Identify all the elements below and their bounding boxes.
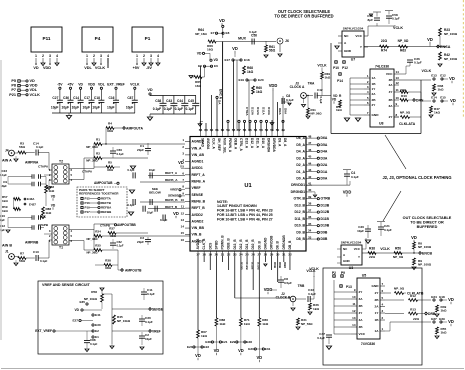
svg-text:44: 44 xyxy=(308,161,312,165)
svg-text:D9_A: D9_A xyxy=(278,138,282,147)
svg-text:D6_A: D6_A xyxy=(296,136,305,140)
svg-text:VDL: VDL xyxy=(98,83,105,87)
svg-text:DRA: DRA xyxy=(278,108,282,116)
svg-text:DRGND1: DRGND1 xyxy=(291,190,305,194)
svg-text:P16: P16 xyxy=(85,201,91,205)
svg-text:REFT_B: REFT_B xyxy=(192,206,206,210)
svg-text:10µF: 10µF xyxy=(92,106,99,110)
svg-text:NP_100Ω: NP_100Ω xyxy=(444,32,458,36)
svg-text:+: + xyxy=(57,102,59,106)
svg-text:D3A: D3A xyxy=(321,156,328,160)
svg-text:0.1µF: 0.1µF xyxy=(164,107,172,111)
svg-text:P17: P17 xyxy=(85,210,91,214)
svg-text:FOR 12-BIT: LSB = PIN 44, PIN: FOR 12-BIT: LSB = PIN 44, PIN 25 xyxy=(217,213,273,217)
svg-text:C45: C45 xyxy=(188,99,194,103)
svg-text:TRB: TRB xyxy=(298,284,305,288)
svg-text:R58: R58 xyxy=(91,290,97,294)
svg-text:D10_B: D10_B xyxy=(294,224,305,228)
svg-text:39: 39 xyxy=(308,195,312,199)
svg-text:VD: VD xyxy=(33,66,39,70)
svg-text:10µF: 10µF xyxy=(149,168,156,172)
svg-text:EXT_VREF: EXT_VREF xyxy=(35,329,52,333)
svg-text:1kΩ: 1kΩ xyxy=(49,189,55,193)
svg-text:DRVDDA: DRVDDA xyxy=(272,138,276,152)
svg-text:VCLK: VCLK xyxy=(95,66,106,70)
svg-text:1kΩ: 1kΩ xyxy=(441,309,447,313)
svg-text:0.1µF: 0.1µF xyxy=(175,107,183,111)
svg-text:D11B: D11B xyxy=(321,217,330,221)
svg-text:DA: DA xyxy=(218,100,222,105)
svg-text:10µF: 10µF xyxy=(357,229,364,233)
svg-text:VREF: VREF xyxy=(152,330,161,334)
svg-text:NP_0Ω: NP_0Ω xyxy=(393,255,404,259)
svg-text:REFBA: REFBA xyxy=(101,206,112,210)
svg-text:4: 4 xyxy=(157,54,159,58)
svg-text:CLOCK B: CLOCK B xyxy=(276,296,291,300)
svg-text:D11_A: D11_A xyxy=(256,138,260,149)
svg-text:D13B: D13B xyxy=(321,203,330,207)
svg-text:P11: P11 xyxy=(43,36,51,41)
svg-text:VCC: VCC xyxy=(386,72,393,76)
svg-text:D12_A: D12_A xyxy=(250,138,254,149)
svg-text:C16: C16 xyxy=(109,96,115,100)
svg-text:1kΩ: 1kΩ xyxy=(325,76,331,80)
svg-text:J2, J3, OPTIONAL CLOCK PATHING: J2, J3, OPTIONAL CLOCK PATHING xyxy=(382,175,451,180)
svg-text:C43: C43 xyxy=(166,99,172,103)
svg-text:D4_A: D4_A xyxy=(296,150,305,154)
svg-text:0.1µF: 0.1µF xyxy=(145,320,153,324)
svg-text:1kΩ: 1kΩ xyxy=(441,331,447,335)
svg-text:VD: VD xyxy=(214,348,220,353)
svg-text:35: 35 xyxy=(308,222,312,226)
svg-text:CTAPA: CTAPA xyxy=(82,170,93,174)
svg-text:1: 1 xyxy=(86,54,88,58)
svg-text:34: 34 xyxy=(308,229,312,233)
svg-text:D12B: D12B xyxy=(321,210,330,214)
svg-text:0.1µF: 0.1µF xyxy=(127,203,135,207)
svg-text:D11A: D11A xyxy=(262,107,266,116)
svg-text:33Ω: 33Ω xyxy=(105,266,111,270)
svg-text:TRA: TRA xyxy=(308,82,315,86)
svg-text:E17: E17 xyxy=(224,58,230,62)
svg-text:C14: C14 xyxy=(73,96,79,100)
svg-text:CLK_B: CLK_B xyxy=(202,238,206,249)
svg-text:NC: NC xyxy=(344,34,349,38)
svg-text:CTRA: CTRA xyxy=(245,107,249,116)
svg-text:NP_10kΩ: NP_10kΩ xyxy=(84,297,98,301)
svg-text:14: 14 xyxy=(181,225,185,229)
svg-text:VCLK: VCLK xyxy=(393,26,403,30)
svg-text:33Ω: 33Ω xyxy=(107,168,113,172)
svg-text:REFTB: REFTB xyxy=(101,201,112,205)
svg-text:33Ω: 33Ω xyxy=(107,129,113,133)
svg-text:E29: E29 xyxy=(230,340,236,344)
svg-text:NP_56Ω: NP_56Ω xyxy=(301,322,313,326)
svg-text:R4: R4 xyxy=(108,122,112,126)
svg-text:PDWN_B: PDWN_B xyxy=(221,235,225,250)
svg-text:-5V: -5V xyxy=(146,66,152,70)
svg-text:E1: E1 xyxy=(95,335,99,339)
svg-text:D1A: D1A xyxy=(321,170,328,174)
svg-text:D9B: D9B xyxy=(273,262,277,269)
svg-text:MUX: MUX xyxy=(238,37,246,41)
svg-text:E18: E18 xyxy=(244,58,250,62)
svg-text:4: 4 xyxy=(56,54,58,58)
svg-text:DCS: DCS xyxy=(208,242,212,250)
svg-text:VD: VD xyxy=(74,308,79,312)
svg-text:BUFFERED: BUFFERED xyxy=(417,225,438,229)
svg-text:VCC: VCC xyxy=(359,332,366,336)
svg-text:AGND2: AGND2 xyxy=(192,219,204,223)
svg-text:E34: E34 xyxy=(431,295,437,299)
svg-text:P12: P12 xyxy=(342,66,348,70)
svg-text:45: 45 xyxy=(308,155,312,159)
svg-text:DRVDD1: DRVDD1 xyxy=(291,183,305,187)
svg-text:14-BIT PINOUT SHOWN: 14-BIT PINOUT SHOWN xyxy=(217,204,257,208)
svg-text:SPAD: SPAD xyxy=(201,138,205,147)
svg-text:NP_0Ω: NP_0Ω xyxy=(400,111,411,115)
svg-text:P19: P19 xyxy=(85,206,91,210)
svg-text:U5: U5 xyxy=(362,274,367,278)
svg-text:REFTA: REFTA xyxy=(101,197,112,201)
svg-text:DB8: DB8 xyxy=(283,262,287,268)
svg-text:VD: VD xyxy=(332,98,337,102)
svg-text:D12_B: D12_B xyxy=(294,210,305,214)
svg-text:NP_36Ω: NP_36Ω xyxy=(86,159,98,163)
svg-text:VDD: VDD xyxy=(269,83,278,88)
svg-text:R63: R63 xyxy=(400,49,406,53)
svg-text:0.1μF: 0.1μF xyxy=(319,96,323,103)
svg-text:R5: R5 xyxy=(108,161,112,165)
svg-text:AMPINA: AMPINA xyxy=(25,161,39,165)
svg-text:P21: P21 xyxy=(9,93,16,97)
svg-text:+: + xyxy=(67,102,69,106)
svg-text:U7: U7 xyxy=(351,58,356,62)
svg-text:SENSE: SENSE xyxy=(192,193,204,197)
svg-text:NP_36Ω: NP_36Ω xyxy=(86,251,98,255)
svg-text:1kΩ: 1kΩ xyxy=(336,108,342,112)
svg-text:AMPINB: AMPINB xyxy=(25,241,39,245)
svg-text:D0_A: D0_A xyxy=(296,176,305,180)
svg-text:C36: C36 xyxy=(63,96,69,100)
svg-text:NP_100Ω: NP_100Ω xyxy=(444,57,458,61)
svg-text:10µF: 10µF xyxy=(51,106,58,110)
svg-text:REFB_A: REFB_A xyxy=(192,180,206,184)
svg-text:VD: VD xyxy=(147,88,153,92)
svg-text:C87: C87 xyxy=(127,96,133,100)
svg-text:1kΩ: 1kΩ xyxy=(2,199,8,203)
svg-text:R1: R1 xyxy=(96,138,100,142)
svg-text:R7: R7 xyxy=(20,252,24,256)
svg-text:0.1µF: 0.1µF xyxy=(117,244,124,248)
svg-text:+: + xyxy=(88,102,90,106)
svg-text:16Ω: 16Ω xyxy=(207,48,213,52)
svg-text:16: 16 xyxy=(181,238,185,242)
svg-text:VD: VD xyxy=(30,79,36,83)
svg-text:CLOCK A: CLOCK A xyxy=(290,85,305,89)
svg-text:E6: E6 xyxy=(214,64,218,68)
svg-text:VDD: VDD xyxy=(264,287,273,292)
svg-text:10µF: 10µF xyxy=(147,211,154,215)
svg-text:3: 3 xyxy=(150,54,152,58)
svg-text:AVDD2: AVDD2 xyxy=(192,213,203,217)
svg-text:E35: E35 xyxy=(79,300,85,304)
svg-text:0.1µF: 0.1µF xyxy=(160,218,168,222)
svg-text:D13_B: D13_B xyxy=(294,203,305,207)
svg-text:VDD: VDD xyxy=(30,84,38,88)
svg-text:15: 15 xyxy=(181,231,185,235)
svg-text:74LC336: 74LC336 xyxy=(375,65,389,69)
svg-text:D11B: D11B xyxy=(251,262,255,270)
svg-text:E27: E27 xyxy=(72,319,78,323)
svg-text:GND: GND xyxy=(344,49,352,53)
svg-text:E13: E13 xyxy=(431,74,437,78)
svg-text:P14: P14 xyxy=(337,79,343,83)
svg-text:10µF: 10µF xyxy=(126,106,133,110)
svg-text:0.1µF: 0.1µF xyxy=(286,98,294,102)
svg-text:13: 13 xyxy=(181,218,185,222)
svg-text:CTAPA: CTAPA xyxy=(38,165,49,169)
svg-text:T1: T1 xyxy=(59,246,63,250)
svg-text:VDD: VDD xyxy=(343,190,352,195)
svg-text:4: 4 xyxy=(107,54,109,58)
svg-text:J4: J4 xyxy=(5,149,9,153)
svg-text:VD: VD xyxy=(219,18,225,23)
svg-text:AGND1: AGND1 xyxy=(192,160,204,164)
svg-text:NP_0Ω: NP_0Ω xyxy=(394,287,405,291)
svg-text:R12: R12 xyxy=(410,294,416,298)
svg-text:1kΩ: 1kΩ xyxy=(201,334,207,338)
svg-text:C62: C62 xyxy=(117,240,123,244)
svg-text:VREF AND SENSE CIRCUIT: VREF AND SENSE CIRCUIT xyxy=(42,283,91,287)
svg-text:NP_36Ω: NP_36Ω xyxy=(86,145,98,149)
svg-text:SH_REF: SH_REF xyxy=(217,138,221,151)
svg-text:SPBD: SPBD xyxy=(214,240,218,250)
svg-text:AMPOUTA: AMPOUTA xyxy=(126,127,143,131)
svg-text:PDWN_A: PDWN_A xyxy=(228,138,232,153)
svg-text:DRGNDB: DRGNDB xyxy=(282,235,286,250)
svg-text:11: 11 xyxy=(352,302,355,306)
svg-text:VD: VD xyxy=(450,98,456,103)
svg-text:48: 48 xyxy=(308,134,312,138)
svg-text:VD: VD xyxy=(333,94,338,98)
svg-text:E37: E37 xyxy=(431,317,437,321)
svg-text:D9A: D9A xyxy=(284,108,288,115)
svg-text:AIN B: AIN B xyxy=(2,244,12,248)
svg-text:0.1µF: 0.1µF xyxy=(186,107,194,111)
svg-text:1kΩ: 1kΩ xyxy=(2,209,8,213)
svg-text:VD: VD xyxy=(411,235,417,240)
svg-text:11: 11 xyxy=(181,205,184,209)
svg-text:2: 2 xyxy=(93,54,95,58)
svg-text:REFB_B: REFB_B xyxy=(192,199,206,203)
svg-text:GND: GND xyxy=(343,259,350,263)
svg-text:D8B: D8B xyxy=(278,262,282,269)
svg-text:VDL: VDL xyxy=(84,66,92,70)
svg-text:R34: R34 xyxy=(95,230,101,234)
svg-text:43: 43 xyxy=(308,168,312,172)
svg-text:VIN_BB: VIN_BB xyxy=(192,226,205,230)
svg-text:VCLK: VCLK xyxy=(380,247,390,251)
svg-text:D10_B: D10_B xyxy=(251,239,255,250)
svg-text:0.1µF: 0.1µF xyxy=(414,61,422,65)
svg-text:VREF: VREF xyxy=(170,188,178,192)
svg-text:1kΩ: 1kΩ xyxy=(46,211,52,215)
svg-text:REFBB: REFBB xyxy=(101,210,112,214)
svg-text:0.1μF: 0.1μF xyxy=(308,292,316,296)
svg-text:OTRB: OTRB xyxy=(321,197,331,201)
svg-text:E39: E39 xyxy=(439,317,445,321)
svg-text:D11_B: D11_B xyxy=(295,217,306,221)
svg-text:VIN_B: VIN_B xyxy=(192,233,203,237)
svg-text:-5V: -5V xyxy=(57,83,63,87)
svg-text:E427: E427 xyxy=(29,203,36,207)
svg-text:GND: GND xyxy=(372,113,380,117)
svg-text:10: 10 xyxy=(181,198,185,202)
svg-text:14: 14 xyxy=(396,70,400,74)
svg-text:10: 10 xyxy=(352,295,356,299)
svg-text:VD: VD xyxy=(238,348,244,353)
svg-text:VD: VD xyxy=(256,355,262,360)
svg-text:12: 12 xyxy=(396,81,400,85)
svg-text:13: 13 xyxy=(352,316,356,320)
svg-text:OUT CLOCK SELECTABLE: OUT CLOCK SELECTABLE xyxy=(403,216,452,220)
svg-text:REFB_B: REFB_B xyxy=(165,198,178,202)
svg-text:R35: R35 xyxy=(95,244,101,248)
svg-text:VD: VD xyxy=(448,319,454,324)
svg-text:BELOW: BELOW xyxy=(149,190,161,194)
svg-text:10µF: 10µF xyxy=(83,106,90,110)
svg-text:E19: E19 xyxy=(238,78,244,82)
svg-text:E21: E21 xyxy=(222,340,228,344)
svg-text:D10B: D10B xyxy=(321,224,330,228)
svg-text:10µF: 10µF xyxy=(107,106,114,110)
svg-text:D5_A: D5_A xyxy=(296,143,305,147)
svg-text:E12: E12 xyxy=(440,74,446,78)
svg-text:D10_A: D10_A xyxy=(261,138,265,149)
svg-text:FOR 10-BIT: LSB = PIN 46, PIN: FOR 10-BIT: LSB = PIN 46, PIN 27 xyxy=(217,218,273,222)
svg-text:ENCB: ENCB xyxy=(422,252,432,256)
svg-text:0.1µF: 0.1µF xyxy=(36,145,44,149)
svg-text:E14: E14 xyxy=(431,96,437,100)
svg-text:1kΩ: 1kΩ xyxy=(262,322,268,326)
svg-text:R38: R38 xyxy=(369,247,375,251)
svg-text:P13: P13 xyxy=(346,285,352,289)
svg-text:22Ω: 22Ω xyxy=(369,255,375,259)
svg-text:VCLK: VCLK xyxy=(30,93,41,97)
svg-text:20pF: 20pF xyxy=(137,148,144,152)
svg-text:74VC836: 74VC836 xyxy=(361,342,375,346)
svg-text:AVDD1: AVDD1 xyxy=(192,166,203,170)
svg-text:E41: E41 xyxy=(95,313,101,317)
svg-text:D2_A: D2_A xyxy=(296,163,305,167)
svg-text:OEB_B: OEB_B xyxy=(227,238,231,250)
svg-text:1kΩ: 1kΩ xyxy=(247,70,254,74)
svg-text:C18: C18 xyxy=(94,96,100,100)
svg-text:VD: VD xyxy=(195,353,201,358)
svg-text:C38: C38 xyxy=(155,99,161,103)
svg-text:AIN A: AIN A xyxy=(2,159,12,163)
svg-text:DB_B: DB_B xyxy=(288,240,292,250)
svg-text:SENSE: SENSE xyxy=(152,308,164,312)
svg-text:P7: P7 xyxy=(11,88,16,92)
svg-text:DAGND: DAGND xyxy=(263,237,267,250)
svg-text:E22: E22 xyxy=(204,345,210,349)
svg-text:E30: E30 xyxy=(95,323,101,327)
svg-text:E43A: E43A xyxy=(27,197,35,201)
svg-text:42: 42 xyxy=(308,175,312,179)
svg-text:E20: E20 xyxy=(258,78,264,82)
svg-text:0.1µF: 0.1µF xyxy=(249,30,257,34)
svg-text:REFB_A: REFB_A xyxy=(165,178,178,182)
svg-text:VD: VD xyxy=(78,83,83,87)
svg-text:33: 33 xyxy=(308,235,312,239)
svg-text:41: 41 xyxy=(308,182,312,186)
svg-text:TO BE DIRECT OR: TO BE DIRECT OR xyxy=(410,221,444,225)
svg-text:+: + xyxy=(132,102,134,106)
svg-text:D11_B: D11_B xyxy=(245,239,249,250)
svg-text:NP_100Ω: NP_100Ω xyxy=(418,245,432,249)
svg-text:SENSE: SENSE xyxy=(168,194,179,198)
svg-text:CTRL_A: CTRL_A xyxy=(239,138,243,151)
svg-text:VREF: VREF xyxy=(192,186,201,190)
svg-text:GND: GND xyxy=(372,284,380,288)
svg-text:VDL: VDL xyxy=(30,88,38,92)
svg-text:+: + xyxy=(98,102,100,106)
svg-text:3: 3 xyxy=(49,54,51,58)
svg-text:T2: T2 xyxy=(59,160,63,164)
svg-text:2: 2 xyxy=(143,54,145,58)
svg-text:1: 1 xyxy=(136,54,138,58)
svg-text:OEB_A: OEB_A xyxy=(234,138,238,150)
svg-text:D2A: D2A xyxy=(321,163,328,167)
svg-text:ENC A: ENC A xyxy=(219,89,223,100)
svg-text:10µF: 10µF xyxy=(145,337,152,341)
svg-text:D0A: D0A xyxy=(321,176,328,180)
svg-text:NP_56Ω: NP_56Ω xyxy=(311,112,323,116)
svg-text:NP_10kΩ: NP_10kΩ xyxy=(117,319,131,323)
svg-text:38: 38 xyxy=(308,202,312,206)
svg-text:VD: VD xyxy=(178,160,184,165)
svg-text:3: 3 xyxy=(100,54,102,58)
svg-text:FOR 16-BIT: LSB = PIN 42, PIN: FOR 16-BIT: LSB = PIN 42, PIN 23 xyxy=(217,209,273,213)
svg-text:SN74LVC1G04: SN74LVC1G04 xyxy=(343,27,364,31)
svg-text:P2: P2 xyxy=(332,271,336,275)
svg-text:10µF: 10µF xyxy=(72,106,79,110)
svg-text:VD: VD xyxy=(427,37,433,42)
svg-text:REFERENCES TOGETHER: REFERENCES TOGETHER xyxy=(79,191,119,195)
svg-text:REFT_A: REFT_A xyxy=(165,171,178,175)
svg-text:VCLK: VCLK xyxy=(306,269,316,273)
svg-text:R37: R37 xyxy=(109,227,115,231)
svg-text:VCLK: VCLK xyxy=(317,64,327,68)
svg-text:D10A: D10A xyxy=(267,107,271,116)
svg-text:E7: E7 xyxy=(211,31,215,35)
svg-text:REFT_A: REFT_A xyxy=(192,173,206,177)
svg-text:D9_B: D9_B xyxy=(257,241,261,250)
svg-text:8pF: 8pF xyxy=(367,18,373,22)
svg-text:0.1µF: 0.1µF xyxy=(153,107,161,111)
svg-text:0.1µF: 0.1µF xyxy=(117,152,125,156)
svg-text:VIN_A: VIN_A xyxy=(192,146,203,150)
svg-text:D6A: D6A xyxy=(321,136,328,140)
svg-text:56Ω: 56Ω xyxy=(19,145,25,149)
svg-text:18µF: 18µF xyxy=(0,184,7,188)
svg-text:SN74LVC1G04: SN74LVC1G04 xyxy=(341,241,362,245)
svg-text:D13_A: D13_A xyxy=(245,138,249,149)
svg-text:D4A: D4A xyxy=(321,150,328,154)
svg-text:D12_B: D12_B xyxy=(239,239,243,250)
